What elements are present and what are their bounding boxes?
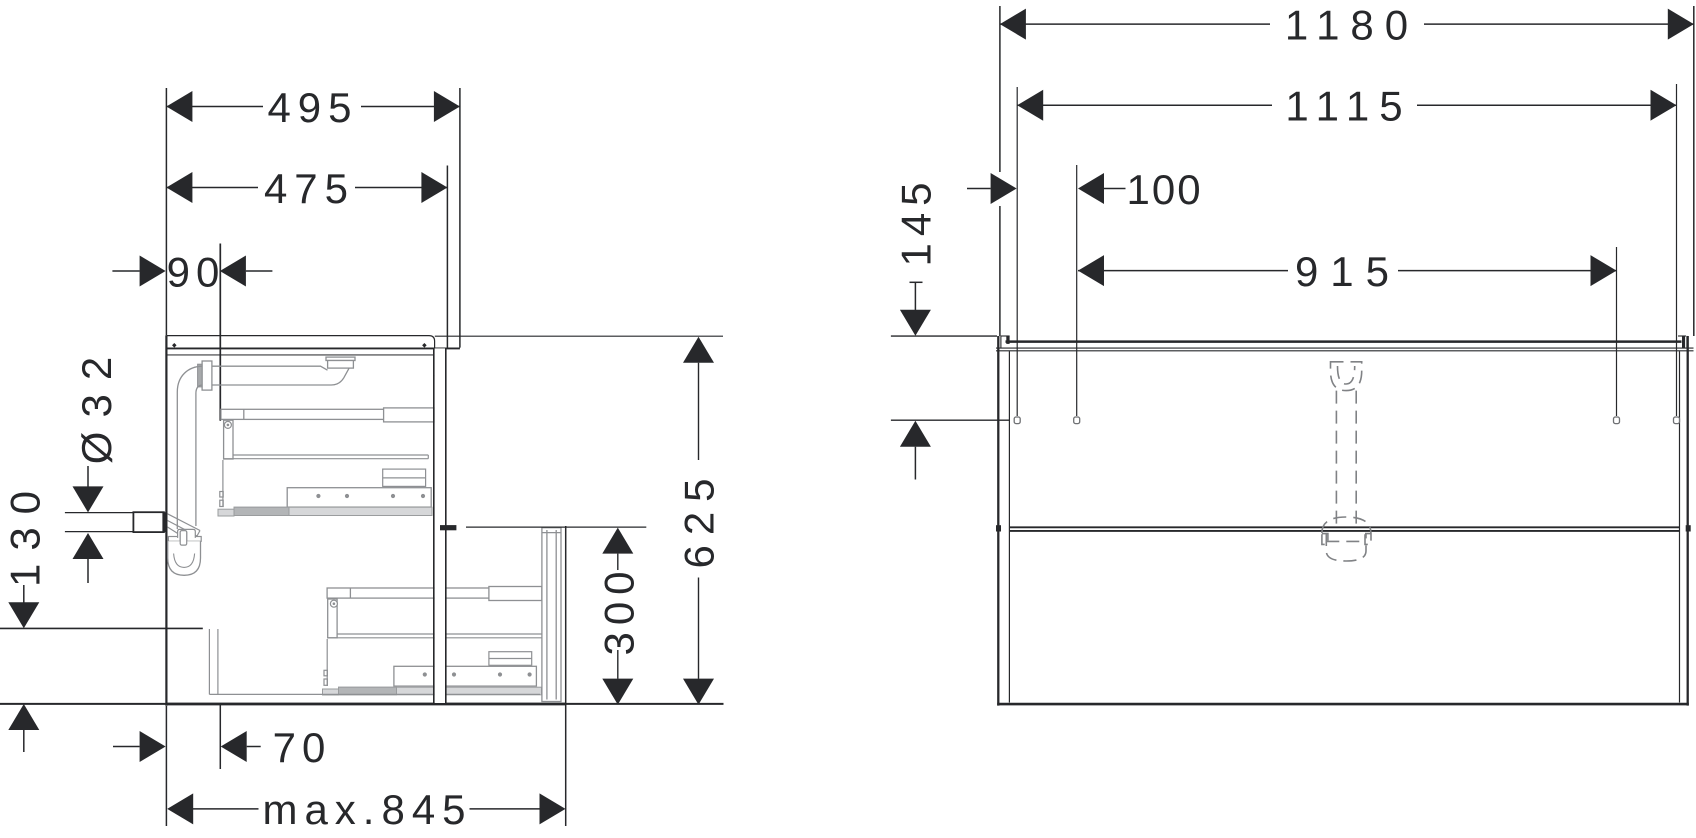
trap cup inner arc <box>174 554 195 568</box>
lower drawer screw <box>330 600 337 607</box>
upper drawer screw <box>224 421 231 428</box>
siphon dashed trap <box>1322 517 1371 561</box>
cabinet front edge <box>165 335 167 706</box>
dimension diameter 32 <box>87 466 89 583</box>
lower drawer bottom lines <box>327 634 542 638</box>
dimension 90 <box>112 270 272 272</box>
svg-text:max.845: max.845 <box>262 786 472 833</box>
wall line 130 <box>0 627 203 629</box>
cabinet bottom line <box>0 703 724 705</box>
upper drawer tray side <box>220 460 223 507</box>
carcass right edge <box>1687 336 1689 706</box>
wall outlet pipe <box>65 513 133 532</box>
svg-text:145: 145 <box>893 175 940 266</box>
carcass left inner edge <box>1008 351 1010 702</box>
FRONT-VIEW <box>891 1 1694 705</box>
dimension 70 <box>113 704 261 769</box>
dimension max845 <box>166 526 565 826</box>
upper drawer panel dots <box>316 494 425 498</box>
LEFT-VIEW <box>0 84 724 833</box>
cabinet ceiling line <box>168 354 434 356</box>
countertop lower lines <box>996 348 1694 351</box>
countertop main line <box>1006 340 1682 343</box>
svg-text:70: 70 <box>273 724 332 771</box>
siphon dashed drain flange <box>1331 362 1362 391</box>
upper drawer tray box <box>383 469 426 486</box>
pipe nut shading <box>198 364 203 387</box>
upper drawer front panel <box>287 488 431 507</box>
lower drawer left wall <box>328 599 337 638</box>
upper drawer left wall <box>224 420 233 459</box>
mounting hole line (90) <box>219 244 221 421</box>
dimension 475 <box>166 166 447 349</box>
divider tick right <box>1686 525 1691 531</box>
lower drawer tray box <box>489 652 532 666</box>
svg-text:90: 90 <box>167 248 226 295</box>
lower drawer rail <box>327 587 542 601</box>
trap cup <box>168 541 201 575</box>
countertop screw dot right <box>422 343 427 348</box>
svg-text:100: 100 <box>1127 166 1203 213</box>
countertop hook left <box>1001 336 1010 348</box>
svg-text:Ø32: Ø32 <box>73 343 120 464</box>
drawer divider lines <box>1009 527 1679 531</box>
lower drawer front panel <box>394 666 537 686</box>
svg-text:300: 300 <box>596 564 643 655</box>
trap fitting inner <box>180 531 187 545</box>
svg-text:475: 475 <box>264 165 355 212</box>
dimension 625 <box>435 336 723 679</box>
trap ring <box>168 537 201 542</box>
cabinet bottom thick part <box>166 703 565 706</box>
lower drawer back panel <box>542 528 561 702</box>
svg-text:130: 130 <box>1 478 48 587</box>
countertop top surface <box>166 336 434 349</box>
lower drawer panel dots <box>423 672 532 676</box>
carcass right inner edge <box>1679 351 1681 702</box>
svg-text:625: 625 <box>676 468 723 568</box>
carcass left edge <box>997 336 999 706</box>
cabinet back panel <box>434 348 446 703</box>
mounting hole lines <box>1017 84 1676 416</box>
mounting hole markers <box>1014 417 1679 424</box>
floor step lines <box>209 629 540 694</box>
lower drawer tray side <box>324 639 327 686</box>
upper drawer bottom lines <box>223 455 428 459</box>
lower drawer slide band <box>323 687 542 695</box>
upper drawer rail <box>221 408 435 422</box>
pipe elbow outer <box>177 366 202 529</box>
siphon dashed tailpipe <box>1336 391 1356 524</box>
trap wedge duct <box>168 514 201 540</box>
svg-text:1115: 1115 <box>1285 83 1412 130</box>
dimension 300 <box>466 527 646 679</box>
countertop screw dot left <box>172 343 177 348</box>
dimension 495 <box>166 88 460 348</box>
countertop bottom line <box>166 347 460 349</box>
dimension 1180 <box>1000 6 1694 336</box>
dimension 100 <box>967 188 1126 190</box>
upper drawer slide band <box>218 507 432 516</box>
pipe nut <box>202 361 212 390</box>
divider tick left <box>996 525 1001 531</box>
dimension 1115 <box>1017 104 1676 106</box>
drain tailpiece flange <box>326 357 355 368</box>
dimension 145 <box>891 282 1010 479</box>
wall pipe end plate <box>162 512 167 532</box>
svg-text:495: 495 <box>267 84 358 131</box>
countertop hook right <box>1678 336 1687 348</box>
trap fitting <box>178 529 196 538</box>
wall pipe coupler <box>133 512 164 532</box>
back panel top bracket <box>435 352 446 376</box>
pipe elbow inner <box>196 385 202 526</box>
svg-text:915: 915 <box>1295 248 1401 295</box>
back panel divider tick <box>440 525 456 530</box>
carcass bottom <box>997 703 1689 706</box>
drain horizontal pipe <box>211 366 349 385</box>
dimension 130 <box>23 585 25 752</box>
dimension 915 <box>1078 270 1617 272</box>
svg-text:1180: 1180 <box>1285 1 1419 48</box>
